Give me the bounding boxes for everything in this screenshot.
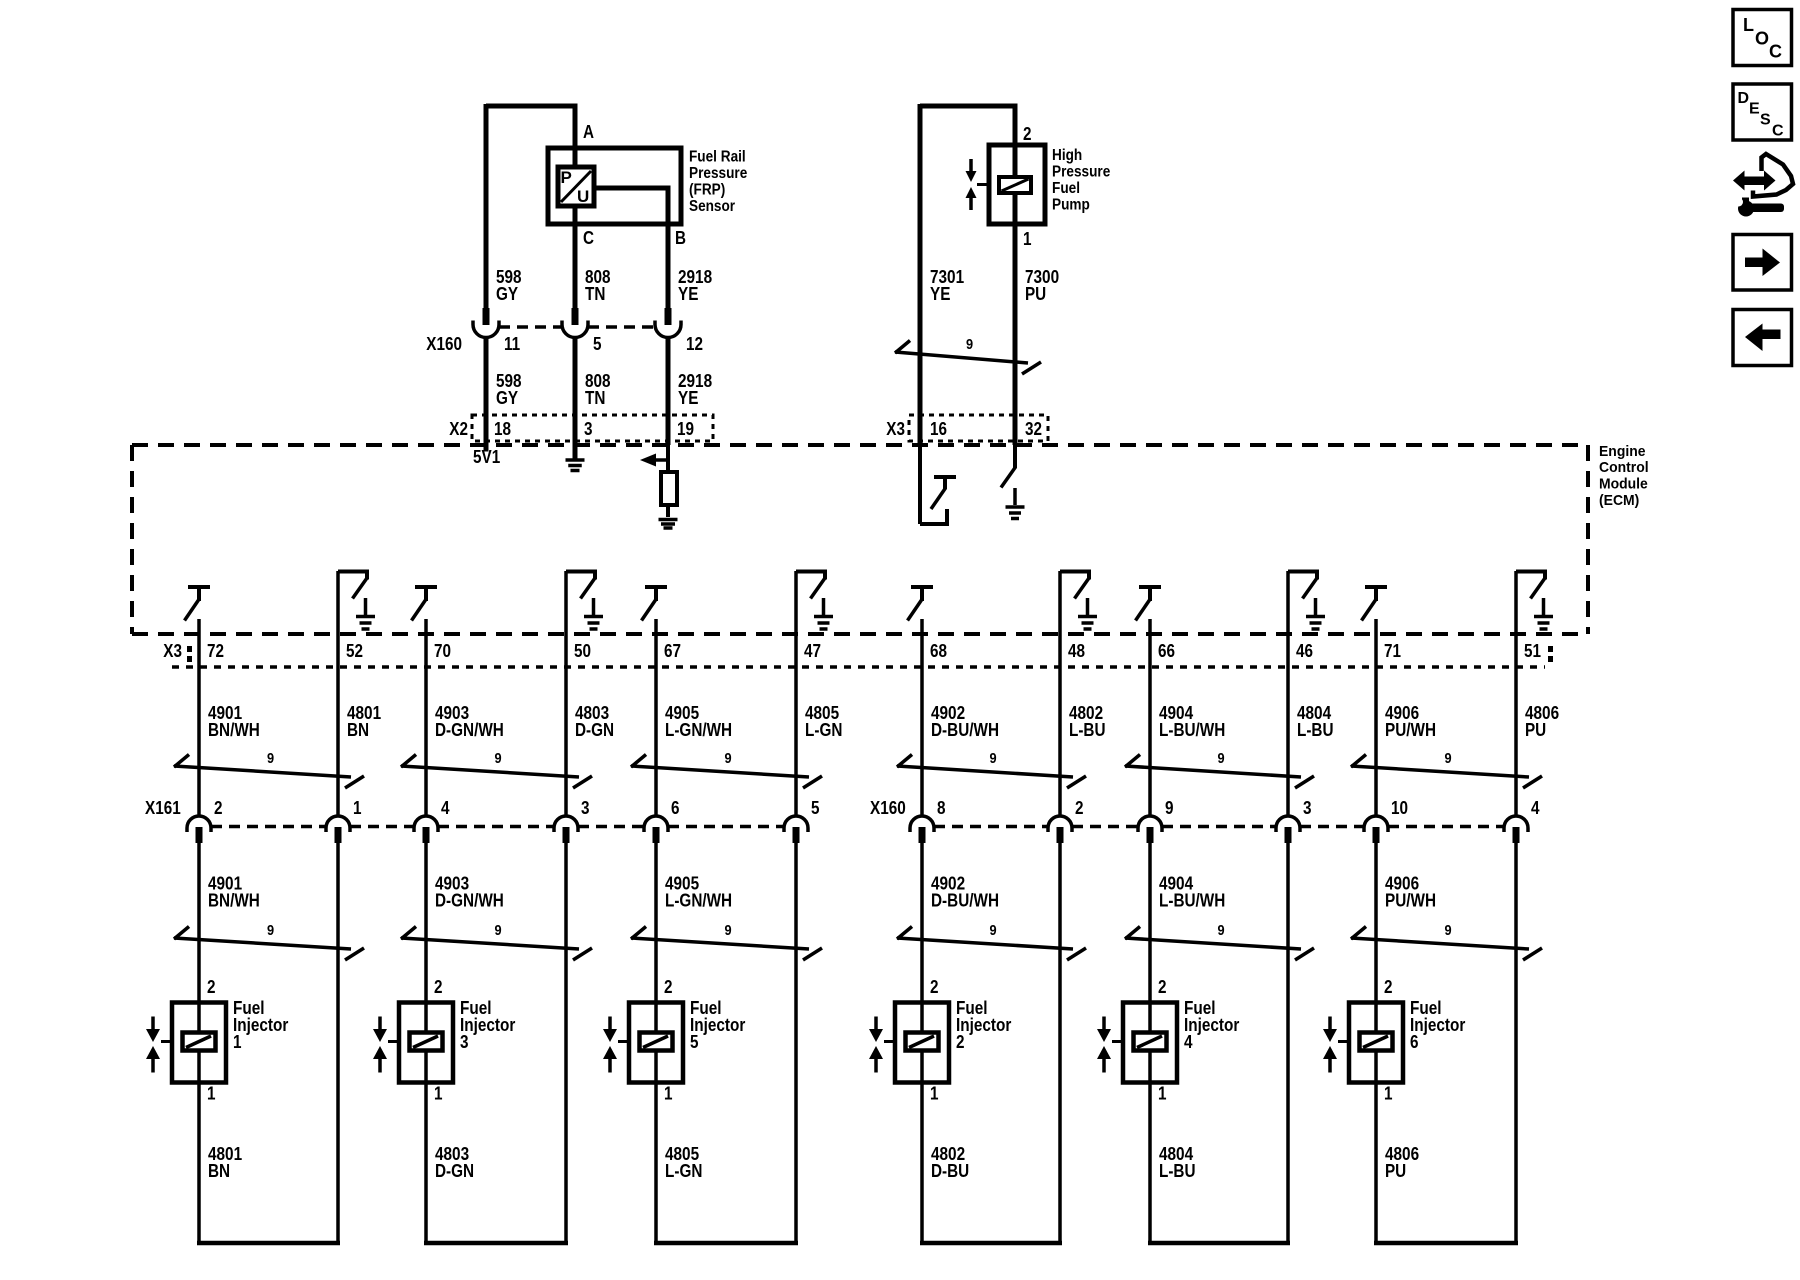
svg-text:TN: TN [585, 284, 605, 304]
fuel injector 6 valve arrows [1328, 1017, 1332, 1030]
svg-text:9: 9 [267, 922, 274, 939]
svg-text:2: 2 [1075, 798, 1084, 818]
svg-text:Control: Control [1599, 459, 1649, 476]
icon: DESC box [1733, 84, 1792, 140]
svg-text:51: 51 [1524, 641, 1541, 661]
icon: schematic navigation glyph [1753, 154, 1793, 197]
svg-text:1: 1 [1384, 1084, 1393, 1104]
svg-text:Fuel: Fuel [1052, 180, 1080, 197]
fuel injector 5 valve arrows [608, 1017, 612, 1030]
svg-text:66: 66 [1158, 641, 1175, 661]
svg-text:L-GN/WH: L-GN/WH [665, 720, 732, 740]
ECM internal driver for pin 46 [1288, 572, 1317, 580]
svg-text:9: 9 [989, 922, 996, 939]
svg-text:72: 72 [207, 641, 224, 661]
FRP sensor feed wire 598 GY (top segment) [484, 104, 489, 308]
harness crossing 9 (wires 4902/4802) [897, 766, 1073, 777]
wire: top jumper to pump pin 2 [920, 104, 1015, 109]
fuel injector 4 box [1123, 1003, 1177, 1083]
wire 2918 YE (lower segment) [666, 337, 671, 445]
icon: forward arrow box [1733, 235, 1792, 291]
svg-text:2: 2 [664, 977, 673, 997]
fuel injector 1 box [172, 1003, 226, 1083]
svg-text:1: 1 [664, 1084, 673, 1104]
pump valve arrows [969, 159, 973, 172]
svg-text:X161: X161 [145, 798, 181, 818]
svg-text:1: 1 [930, 1084, 939, 1104]
svg-text:P: P [561, 168, 572, 187]
svg-text:Sensor: Sensor [689, 198, 735, 215]
svg-text:Pressure: Pressure [1052, 164, 1110, 181]
svg-text:6: 6 [1410, 1032, 1419, 1052]
wire from ECM pin 72 [197, 619, 201, 816]
bottom loop joining injector 5 wires [654, 1241, 798, 1246]
svg-text:5: 5 [811, 798, 820, 818]
svg-text:GY: GY [496, 388, 518, 408]
svg-text:Fuel Rail: Fuel Rail [689, 149, 746, 166]
svg-text:1: 1 [1023, 229, 1032, 249]
svg-text:Engine: Engine [1599, 443, 1646, 460]
fuel injector 3 solenoid coil [410, 1033, 443, 1051]
svg-text:2: 2 [434, 977, 443, 997]
ECM internal driver for pin 51 [1516, 572, 1545, 580]
connector X160 pin 4 [1504, 816, 1528, 832]
svg-text:L-GN: L-GN [805, 720, 842, 740]
svg-text:5V1: 5V1 [473, 447, 500, 467]
svg-text:9: 9 [267, 750, 274, 767]
svg-text:X2: X2 [449, 419, 468, 439]
svg-text:PU/WH: PU/WH [1385, 891, 1436, 911]
svg-text:BN: BN [347, 720, 369, 740]
wire: sensor pin A drop [573, 104, 578, 149]
svg-text:11: 11 [504, 334, 520, 354]
pump solenoid coil [999, 177, 1031, 193]
svg-text:(FRP): (FRP) [689, 182, 725, 199]
svg-text:9: 9 [1217, 750, 1224, 767]
svg-text:16: 16 [930, 419, 947, 439]
FRP sensor internal wire C [573, 148, 578, 224]
svg-text:9: 9 [724, 922, 731, 939]
connector X161 pin 5 [784, 816, 808, 832]
ECM internal driver for pin 68 [911, 585, 933, 589]
svg-text:B: B [675, 228, 686, 248]
svg-text:PU: PU [1025, 284, 1046, 304]
ECM internal driver for pin 50 [566, 572, 595, 580]
svg-text:9: 9 [494, 922, 501, 939]
svg-text:12: 12 [686, 334, 703, 354]
ECM internal driver for pin 72 [188, 585, 210, 589]
harness crossing 9 (injector 5 pair, lower) [631, 938, 809, 949]
svg-text:3: 3 [1303, 798, 1312, 818]
svg-text:High: High [1052, 147, 1082, 164]
ECM internal driver for pin 67 [645, 585, 667, 589]
svg-text:D-BU/WH: D-BU/WH [931, 720, 999, 740]
injector 1 control wire below connector [197, 843, 201, 1243]
svg-text:D-BU: D-BU [931, 1161, 969, 1181]
harness crossing 9 (injector 4 pair, lower) [1125, 938, 1301, 949]
wire 808 TN (lower segment) [573, 337, 578, 445]
svg-text:1: 1 [1158, 1084, 1167, 1104]
injector 1 return wire below connector [336, 843, 340, 1243]
svg-text:L-BU: L-BU [1069, 720, 1106, 740]
svg-text:2: 2 [207, 977, 216, 997]
svg-text:1: 1 [353, 798, 362, 818]
fuel injector 5 solenoid coil [640, 1033, 673, 1051]
wire from ECM pin 47 [794, 571, 798, 816]
wire C segment below sensor [573, 224, 578, 308]
harness crossing 9 (wires 4904/4804) [1125, 766, 1301, 777]
svg-text:L-BU: L-BU [1159, 1161, 1196, 1181]
svg-text:9: 9 [724, 750, 731, 767]
bottom loop joining injector 1 wires [197, 1241, 340, 1246]
fuel injector 2 solenoid coil [906, 1033, 939, 1051]
fuel injector 6 solenoid coil [1360, 1033, 1393, 1051]
harness crossing 9 (wires 4905/4805) [631, 766, 809, 777]
svg-text:O: O [1755, 29, 1769, 49]
svg-text:D-GN/WH: D-GN/WH [435, 891, 504, 911]
svg-text:4: 4 [441, 798, 450, 818]
svg-text:3: 3 [584, 419, 593, 439]
bottom loop joining injector 4 wires [1148, 1241, 1290, 1246]
svg-text:9: 9 [989, 750, 996, 767]
svg-text:2: 2 [1384, 977, 1393, 997]
svg-text:67: 67 [664, 641, 681, 661]
svg-text:2: 2 [214, 798, 223, 818]
bottom loop joining injector 2 wires [920, 1241, 1062, 1246]
icon: back arrow box [1733, 310, 1792, 366]
svg-text:68: 68 [930, 641, 947, 661]
svg-text:YE: YE [930, 284, 950, 304]
svg-text:47: 47 [804, 641, 821, 661]
svg-text:1: 1 [233, 1032, 242, 1052]
injector 2 control wire below connector [920, 843, 924, 1243]
svg-text:E: E [1749, 101, 1760, 118]
svg-text:19: 19 [677, 419, 694, 439]
fuel injector 3 box [399, 1003, 453, 1083]
ECM connector X2 dotted box [472, 415, 713, 441]
X3 bottom connector dotted line [172, 665, 1545, 669]
ECM internal high-side driver (X3-16) [918, 445, 922, 524]
fuel injector 4 solenoid coil [1134, 1033, 1167, 1051]
connector X160 pin 3 [1276, 816, 1300, 832]
injector 3 control wire below connector [424, 843, 428, 1243]
connector X161 pin 3 [554, 816, 578, 832]
wire from ECM pin 51 [1514, 571, 1518, 816]
wire 598 GY (lower segment) [484, 337, 489, 445]
svg-text:10: 10 [1391, 798, 1408, 818]
svg-text:9: 9 [1165, 798, 1174, 818]
svg-text:8: 8 [937, 798, 946, 818]
wire from ECM pin 71 [1374, 619, 1378, 816]
ECM internal signal arrow + resistor to ground (pin 19) [666, 445, 670, 472]
svg-text:3: 3 [460, 1032, 469, 1052]
wire from ECM pin 50 [564, 571, 568, 816]
pump return wire 7300 PU [1013, 224, 1018, 445]
svg-text:GY: GY [496, 284, 518, 304]
svg-text:5: 5 [593, 334, 602, 354]
svg-text:D-GN: D-GN [435, 1161, 474, 1181]
ECM internal ground (pin 3) [573, 445, 578, 459]
HP pump feed wire 7301 YE top segment [918, 104, 923, 445]
svg-text:YE: YE [678, 284, 698, 304]
svg-text:X160: X160 [426, 334, 462, 354]
icon: LOC box [1733, 10, 1792, 66]
svg-text:4: 4 [1184, 1032, 1193, 1052]
fuel injector 1 solenoid coil [183, 1033, 216, 1051]
ECM dashed border [132, 443, 1588, 447]
X161 dashed body [211, 825, 326, 829]
ECM internal driver for pin 70 [415, 585, 437, 589]
svg-text:9: 9 [1444, 750, 1451, 767]
fuel injector 2 valve arrows [874, 1017, 878, 1030]
injector 5 return wire below connector [794, 843, 798, 1243]
svg-text:70: 70 [434, 641, 451, 661]
svg-text:L-GN: L-GN [665, 1161, 702, 1181]
ECM internal driver for pin 48 [1060, 572, 1089, 580]
ECM internal driver for pin 71 [1365, 585, 1387, 589]
fuel injector 6 box [1349, 1003, 1403, 1083]
svg-text:L-BU/WH: L-BU/WH [1159, 720, 1225, 740]
injector 4 return wire below connector [1286, 843, 1290, 1243]
harness crossing 9 (injector 3 pair, lower) [401, 938, 579, 949]
svg-text:32: 32 [1025, 419, 1042, 439]
svg-text:PU: PU [1525, 720, 1546, 740]
svg-text:1: 1 [434, 1084, 443, 1104]
ECM internal driver for pin 52 [338, 572, 367, 580]
X160 dashed body (bottom) [934, 825, 1048, 829]
connector X161 pin 6 [644, 816, 668, 832]
svg-text:2: 2 [956, 1032, 965, 1052]
svg-text:BN/WH: BN/WH [208, 720, 260, 740]
svg-text:2: 2 [1158, 977, 1167, 997]
svg-text:U: U [577, 187, 589, 206]
svg-text:C: C [1772, 123, 1784, 140]
bottom loop joining injector 6 wires [1374, 1241, 1518, 1246]
svg-text:D: D [1738, 90, 1750, 107]
injector 5 control wire below connector [654, 843, 658, 1243]
svg-text:9: 9 [1217, 922, 1224, 939]
injector 2 return wire below connector [1058, 843, 1062, 1243]
svg-text:3: 3 [581, 798, 590, 818]
FRP sensor box [548, 148, 681, 224]
svg-text:6: 6 [671, 798, 680, 818]
svg-text:1: 1 [207, 1084, 216, 1104]
svg-text:D-BU/WH: D-BU/WH [931, 891, 999, 911]
pump pin 2 drop [1013, 104, 1018, 146]
fuel injector 3 valve arrows [378, 1017, 382, 1030]
svg-text:18: 18 [494, 419, 511, 439]
connector X161 pin 4 [414, 816, 438, 832]
wire from ECM pin 70 [424, 619, 428, 816]
wire B segment below sensor [666, 224, 671, 308]
fuel injector 5 box [629, 1003, 683, 1083]
ECM internal driver for pin 66 [1139, 585, 1161, 589]
ECM 5V1 reference stub [484, 445, 489, 452]
svg-text:52: 52 [346, 641, 363, 661]
svg-text:2: 2 [930, 977, 939, 997]
ECM connector X3 (top) dotted box [909, 415, 1048, 441]
svg-text:9: 9 [1444, 922, 1451, 939]
svg-text:D-GN/WH: D-GN/WH [435, 720, 504, 740]
svg-text:Module: Module [1599, 476, 1648, 493]
connector X160 pin 2 [1048, 816, 1072, 832]
harness crossing 9 (pump wires) [895, 352, 1028, 363]
svg-text:PU: PU [1385, 1161, 1406, 1181]
svg-text:(ECM): (ECM) [1599, 492, 1639, 509]
injector 6 control wire below connector [1374, 843, 1378, 1243]
svg-text:PU/WH: PU/WH [1385, 720, 1436, 740]
wire from ECM pin 46 [1286, 571, 1290, 816]
ECM internal low-side driver + ground (X3-32) [1013, 445, 1017, 468]
svg-text:BN: BN [208, 1161, 230, 1181]
svg-text:50: 50 [574, 641, 591, 661]
svg-text:C: C [583, 228, 594, 248]
svg-text:L-BU/WH: L-BU/WH [1159, 891, 1225, 911]
connector X160 pin 9 [1138, 816, 1162, 832]
high pressure fuel pump box [989, 145, 1045, 224]
connector X160 pin 11 [483, 308, 490, 325]
harness crossing 9 (injector 2 pair, lower) [897, 938, 1073, 949]
svg-text:2: 2 [1023, 124, 1032, 144]
pump internal wire [1013, 145, 1018, 224]
svg-text:48: 48 [1068, 641, 1085, 661]
svg-text:L-GN/WH: L-GN/WH [665, 891, 732, 911]
svg-text:4: 4 [1531, 798, 1540, 818]
svg-text:L-BU: L-BU [1297, 720, 1334, 740]
connector X160 pin 12 [665, 308, 672, 325]
harness crossing 9 (wires 4901/4801) [174, 766, 351, 777]
harness crossing 9 (wires 4903/4803) [401, 766, 579, 777]
FRP sensor output line to pin B [594, 188, 668, 224]
connector X160 pin 5 [572, 308, 579, 325]
svg-text:L: L [1743, 15, 1754, 35]
wire from ECM pin 48 [1058, 571, 1062, 816]
fuel injector 4 valve arrows [1102, 1017, 1106, 1030]
svg-text:A: A [583, 122, 594, 142]
svg-text:C: C [1769, 42, 1782, 62]
FRP sensor P/U transducer box [558, 167, 594, 206]
svg-text:YE: YE [678, 388, 698, 408]
wire from ECM pin 66 [1148, 619, 1152, 816]
ECM internal driver for pin 47 [796, 572, 825, 580]
svg-text:X3: X3 [886, 419, 905, 439]
svg-text:Pump: Pump [1052, 197, 1090, 214]
svg-text:X160: X160 [870, 798, 906, 818]
svg-text:D-GN: D-GN [575, 720, 614, 740]
bottom loop joining injector 3 wires [424, 1241, 568, 1246]
connector X161 pin 1 [326, 816, 350, 832]
svg-text:BN/WH: BN/WH [208, 891, 260, 911]
injector 6 return wire below connector [1514, 843, 1518, 1243]
svg-text:Pressure: Pressure [689, 165, 747, 182]
wire: top jumper from 598 wire to sensor pin A [486, 104, 575, 109]
harness crossing 9 (wires 4906/4806) [1351, 766, 1529, 777]
connector X160 pin 10 [1364, 816, 1388, 832]
connector X160 dashed body [499, 325, 562, 329]
svg-text:9: 9 [494, 750, 501, 767]
wire from ECM pin 68 [920, 619, 924, 816]
fuel injector 2 box [895, 1003, 949, 1083]
injector 3 return wire below connector [564, 843, 568, 1243]
connector X160 pin 8 [910, 816, 934, 832]
svg-text:46: 46 [1296, 641, 1313, 661]
svg-text:TN: TN [585, 388, 605, 408]
svg-text:9: 9 [966, 336, 973, 353]
harness crossing 9 (injector 1 pair, lower) [174, 938, 351, 949]
svg-text:S: S [1760, 112, 1771, 129]
harness crossing 9 (injector 6 pair, lower) [1351, 938, 1529, 949]
svg-text:X3: X3 [163, 641, 182, 661]
injector 4 control wire below connector [1148, 843, 1152, 1243]
fuel injector 1 valve arrows [151, 1017, 155, 1030]
wire from ECM pin 67 [654, 619, 658, 816]
svg-text:5: 5 [690, 1032, 699, 1052]
connector X161 pin 2 [187, 816, 211, 832]
svg-text:71: 71 [1384, 641, 1401, 661]
wire from ECM pin 52 [336, 571, 340, 816]
